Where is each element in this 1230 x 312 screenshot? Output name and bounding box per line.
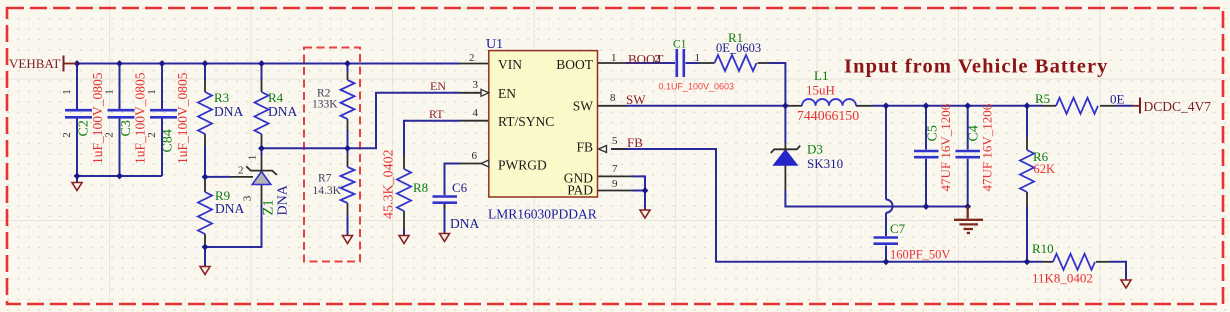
pin U1 pin2 VIN bbox=[460, 63, 489, 65]
pin U1 pin6 PWRGD bbox=[460, 163, 481, 165]
pin stub Z1 cathode bbox=[261, 155, 263, 171]
capacitor C5 plates bbox=[914, 151, 939, 157]
wire R6 bottom bbox=[1026, 207, 1028, 262]
pin arrow PWRGD output bbox=[481, 160, 489, 167]
svg-text:7: 7 bbox=[612, 163, 618, 175]
svg-text:VIN: VIN bbox=[498, 57, 522, 72]
svg-text:4: 4 bbox=[473, 107, 479, 119]
svg-text:PAD: PAD bbox=[567, 183, 593, 198]
svg-text:9: 9 bbox=[612, 178, 618, 190]
svg-text:0E_0603: 0E_0603 bbox=[716, 41, 761, 55]
pin U1 pin8 SW bbox=[598, 105, 627, 107]
svg-text:D3: D3 bbox=[807, 142, 823, 157]
pin stub R6 bottom bbox=[1026, 192, 1028, 207]
wire R9 bottom node to gnd stub bbox=[204, 246, 206, 267]
node R2 top bbox=[344, 60, 351, 67]
svg-text:1: 1 bbox=[104, 89, 116, 95]
wire node R3-R9 to Z1 pin2 bbox=[205, 176, 230, 178]
wire capacitor ground rail bbox=[76, 175, 162, 177]
pin U1 pin9 PAD bbox=[598, 190, 633, 192]
wire R5 right to port bbox=[1116, 105, 1133, 107]
wire R7 bottom to gnd bbox=[347, 215, 349, 236]
svg-text:C7: C7 bbox=[890, 221, 906, 236]
ground below R9 bbox=[200, 267, 210, 275]
wire SW net bbox=[626, 105, 789, 107]
pin stub L1 left bbox=[789, 105, 802, 107]
pin stub R2 bottom bbox=[347, 119, 349, 130]
ground earth below C4 bbox=[954, 207, 983, 234]
wire EN net horizontal bbox=[262, 93, 461, 149]
pin U1 pin4 RT bbox=[460, 120, 489, 122]
svg-text:FB: FB bbox=[627, 135, 643, 150]
wire PWRGD to C6 bbox=[445, 164, 461, 196]
capacitor C4 plates bbox=[956, 151, 981, 157]
svg-text:VEHBAT: VEHBAT bbox=[9, 56, 60, 71]
pin stub R7 bottom bbox=[347, 203, 349, 215]
svg-text:1: 1 bbox=[247, 155, 259, 161]
wire FB net from pin5 bbox=[611, 149, 1042, 262]
svg-text:R8: R8 bbox=[413, 180, 428, 195]
ground below U1 PAD bbox=[640, 210, 650, 218]
svg-text:RT: RT bbox=[429, 107, 444, 121]
svg-text:14.3K: 14.3K bbox=[313, 185, 342, 197]
pin Z1 pin2 horizontal bbox=[230, 176, 253, 178]
wire L1 right to VOUT rail bbox=[873, 105, 1042, 107]
wire D3 top bbox=[784, 106, 786, 143]
resistor R7 zigzag bbox=[341, 167, 355, 203]
pin stub Z1 anode bbox=[261, 185, 263, 205]
pin stub R6 top bbox=[1026, 137, 1028, 150]
wire R1 right down to SW node bbox=[769, 63, 785, 106]
capacitor C1 plates bbox=[677, 49, 684, 77]
wire C6 bottom to gnd bbox=[444, 204, 446, 234]
svg-text:R4: R4 bbox=[268, 90, 284, 105]
pin stub R2 top bbox=[347, 72, 349, 80]
svg-text:2: 2 bbox=[61, 132, 73, 138]
pin stub R1 left bbox=[699, 62, 715, 64]
svg-text:1: 1 bbox=[611, 52, 617, 64]
svg-text:EN: EN bbox=[430, 79, 446, 93]
wire Z1 top bbox=[261, 148, 263, 155]
wire Z1 anode to R9 node bbox=[205, 205, 262, 247]
node C3 gnd bbox=[116, 173, 123, 180]
wire D3 anode down and right rail bbox=[785, 190, 967, 207]
svg-text:DNA: DNA bbox=[268, 104, 297, 119]
wire C7 top from VOUT bbox=[885, 106, 887, 200]
svg-text:Z1: Z1 bbox=[261, 199, 277, 215]
node VOUT-C5 bbox=[923, 102, 930, 109]
svg-text:R7: R7 bbox=[318, 173, 332, 185]
pin stub R1 right bbox=[758, 62, 770, 64]
pin stub C6 bottom tail bbox=[444, 204, 446, 210]
node R9-Z1 gnd bbox=[202, 244, 209, 251]
svg-text:FB: FB bbox=[576, 140, 593, 155]
svg-text:47UF 16V_1206: 47UF 16V_1206 bbox=[980, 103, 995, 191]
svg-text:SW: SW bbox=[573, 99, 594, 114]
svg-text:45.3K_0402: 45.3K_0402 bbox=[382, 149, 397, 219]
resistor R3 zigzag bbox=[198, 92, 212, 134]
node C7-FB bbox=[883, 258, 890, 265]
svg-text:1uF_100V_0805: 1uF_100V_0805 bbox=[175, 72, 190, 164]
svg-text:1uF_100V_0805: 1uF_100V_0805 bbox=[133, 72, 148, 164]
resistor R4 zigzag bbox=[255, 92, 269, 134]
pin stub D3 bottom bbox=[784, 165, 786, 190]
svg-text:C1: C1 bbox=[673, 39, 687, 51]
zener diode Z1 symbol bbox=[246, 166, 277, 184]
wire R2 top bbox=[347, 64, 349, 73]
svg-text:160PF_50V: 160PF_50V bbox=[890, 248, 950, 262]
capacitor C7 plates bbox=[874, 238, 899, 244]
svg-text:DNA: DNA bbox=[214, 104, 243, 119]
resistor R10 zigzag bbox=[1053, 254, 1095, 270]
wire C3 bottom bbox=[119, 119, 121, 177]
wire PAD to tie bbox=[632, 190, 645, 192]
node VOUT-C7 bbox=[883, 102, 890, 109]
ground below C6 bbox=[440, 234, 450, 242]
svg-text:C6: C6 bbox=[452, 180, 468, 195]
svg-text:6: 6 bbox=[472, 150, 478, 162]
wire C7 bottom to FB rail bbox=[885, 246, 887, 262]
svg-text:2: 2 bbox=[104, 132, 116, 138]
wire R4 bottom to EN node bbox=[261, 146, 263, 148]
pin stub R8 bottom bbox=[403, 211, 405, 229]
svg-text:PWRGD: PWRGD bbox=[498, 158, 547, 173]
DNI dashed box around R2 R7 bbox=[304, 48, 360, 262]
svg-text:SK310: SK310 bbox=[807, 156, 843, 171]
resistor R1 zigzag bbox=[715, 55, 757, 71]
pin stub R4 bottom bbox=[261, 134, 263, 146]
capacitor C3 plates bbox=[108, 110, 135, 117]
node R6-R10-FB bbox=[1024, 258, 1031, 265]
wire R8 bottom to gnd bbox=[403, 229, 405, 236]
node VOUT-R6 bbox=[1024, 102, 1031, 109]
svg-text:DCDC_4V7: DCDC_4V7 bbox=[1144, 99, 1212, 114]
resistor R6 zigzag bbox=[1020, 150, 1034, 192]
ground below C2 bbox=[72, 183, 82, 191]
node R4 top bbox=[258, 60, 265, 67]
pin U1 pin1 BOOT bbox=[598, 62, 627, 64]
svg-text:BOOT: BOOT bbox=[556, 57, 594, 72]
svg-text:1: 1 bbox=[61, 89, 73, 95]
svg-text:8: 8 bbox=[610, 92, 616, 104]
wire R4 top bbox=[261, 64, 263, 81]
svg-text:DNA: DNA bbox=[450, 216, 479, 231]
svg-text:R5: R5 bbox=[1035, 91, 1050, 106]
node VOUT-C4 bbox=[964, 102, 971, 109]
svg-text:RT/SYNC: RT/SYNC bbox=[498, 114, 554, 129]
op-amp U1 body LMR16030PDDAR bbox=[489, 51, 598, 197]
node R3 top bbox=[202, 60, 209, 67]
port DCDC_4V7 bbox=[1133, 98, 1211, 115]
wire C84 top bbox=[161, 64, 163, 110]
svg-text:15uH: 15uH bbox=[806, 83, 835, 98]
capacitor C84 plates bbox=[150, 110, 177, 117]
pin stub R3 bottom bbox=[204, 134, 206, 146]
resistor R2 zigzag bbox=[341, 80, 355, 119]
svg-text:SW: SW bbox=[626, 92, 646, 107]
wire R3 bottom to node bbox=[204, 146, 206, 176]
wire C5 bottom bbox=[925, 159, 927, 207]
ground below R10 bbox=[1121, 280, 1131, 288]
wire RT net bbox=[404, 121, 460, 155]
pin arrow FB input bbox=[599, 146, 607, 153]
pin stub R5 right bbox=[1100, 105, 1116, 107]
wire R2 bottom bbox=[347, 130, 349, 148]
node SW-R1-D3 bbox=[782, 102, 789, 109]
wire gnd stub below C2 bbox=[76, 176, 78, 183]
wire BOOT pin to C1 bbox=[626, 62, 675, 64]
svg-text:2: 2 bbox=[469, 52, 475, 64]
svg-text:U1: U1 bbox=[486, 37, 503, 52]
pin stub R5 left bbox=[1042, 105, 1056, 107]
resistor R8 zigzag bbox=[397, 169, 411, 211]
port VEHBAT bbox=[9, 56, 77, 72]
svg-text:5: 5 bbox=[612, 135, 618, 147]
pin stub D3 top bbox=[784, 143, 786, 149]
inductor L1 arcs bbox=[802, 99, 856, 106]
svg-text:11K8_0402: 11K8_0402 bbox=[1032, 271, 1093, 286]
pin stub R9 bottom bbox=[204, 234, 206, 246]
pin U1 pin3 EN bbox=[460, 92, 481, 94]
pin stub R10 left bbox=[1042, 261, 1053, 263]
pin stub R7 top bbox=[347, 154, 349, 167]
svg-text:R10: R10 bbox=[1032, 241, 1054, 256]
wire C2 top bbox=[76, 64, 78, 110]
svg-text:DNA: DNA bbox=[276, 184, 291, 215]
svg-text:62K: 62K bbox=[1034, 162, 1056, 176]
diode D3 symbol bbox=[771, 146, 800, 165]
svg-text:744066150: 744066150 bbox=[797, 108, 859, 123]
pin stub R4 top bbox=[261, 80, 263, 92]
wire GND PAD tie bbox=[632, 176, 645, 210]
svg-text:1uF_100V_0805: 1uF_100V_0805 bbox=[90, 72, 105, 164]
svg-text:0E: 0E bbox=[1110, 92, 1125, 107]
ground below R8 bbox=[399, 236, 409, 244]
svg-text:L1: L1 bbox=[814, 68, 828, 83]
svg-text:C84: C84 bbox=[161, 129, 176, 152]
node R4-Z1-EN bbox=[258, 145, 265, 152]
pin stub R9 top bbox=[204, 178, 206, 192]
pin U1 pin5 FB bbox=[611, 148, 626, 150]
svg-text:DNA: DNA bbox=[215, 201, 244, 216]
node C84 top bbox=[159, 60, 166, 67]
wire C4 top bbox=[967, 106, 969, 150]
svg-text:BOOT: BOOT bbox=[628, 52, 663, 67]
node C2 gnd bbox=[74, 173, 81, 180]
resistor R9 zigzag bbox=[198, 192, 212, 234]
wire C7 below hop bbox=[885, 213, 887, 236]
pin stub R10 right bbox=[1096, 261, 1110, 263]
node R3-R9-Z1 bbox=[202, 174, 209, 181]
wire C1 to R1 bbox=[686, 62, 700, 64]
wire R6 top bbox=[1026, 106, 1028, 137]
wire R3 top bbox=[204, 64, 206, 81]
pin stub R8 top bbox=[403, 155, 405, 169]
pin arrow EN input bbox=[481, 89, 489, 96]
wire R7 top bbox=[347, 148, 349, 154]
wire VEHBAT rail to VIN bbox=[77, 63, 460, 65]
svg-text:47UF 16V_1206: 47UF 16V_1206 bbox=[938, 103, 953, 191]
svg-text:Input from Vehicle Battery: Input from Vehicle Battery bbox=[844, 56, 1109, 78]
pin stub R3 top bbox=[204, 80, 206, 92]
node C3 top bbox=[116, 60, 123, 67]
svg-text:LMR16030PDDAR: LMR16030PDDAR bbox=[488, 207, 597, 222]
wire C7 hop over ground rail bbox=[886, 200, 893, 213]
node GND-PAD bbox=[642, 187, 649, 194]
pin stub L1 right bbox=[856, 105, 873, 107]
svg-text:1: 1 bbox=[695, 52, 701, 64]
wire C4 bottom bbox=[967, 159, 969, 207]
svg-text:1: 1 bbox=[146, 89, 158, 95]
pin U1 pin7 GND bbox=[598, 175, 633, 177]
svg-text:2: 2 bbox=[238, 165, 244, 177]
wire C5 top bbox=[925, 106, 927, 150]
resistor R5 zigzag bbox=[1056, 98, 1098, 114]
wire C84 bottom bbox=[161, 119, 163, 177]
wire R10 right to gnd bbox=[1110, 262, 1126, 280]
svg-text:3: 3 bbox=[473, 79, 479, 91]
capacitor C2 plates bbox=[65, 110, 92, 117]
ground below R7 bbox=[343, 236, 353, 244]
node VEHBAT-C2 bbox=[74, 60, 81, 67]
node C5 bottom bbox=[923, 203, 930, 210]
svg-text:0.1UF_100V_0603: 0.1UF_100V_0603 bbox=[659, 82, 735, 92]
svg-text:EN: EN bbox=[498, 86, 516, 101]
node C4 gnd bbox=[964, 203, 971, 210]
svg-text:2: 2 bbox=[146, 132, 158, 138]
wire C2 bottom bbox=[76, 119, 78, 177]
wire C3 top bbox=[119, 64, 121, 110]
svg-text:R3: R3 bbox=[214, 90, 229, 105]
svg-text:133K: 133K bbox=[312, 99, 338, 111]
capacitor C6 plates bbox=[433, 197, 458, 203]
node R2-R7-EN bbox=[344, 145, 351, 152]
